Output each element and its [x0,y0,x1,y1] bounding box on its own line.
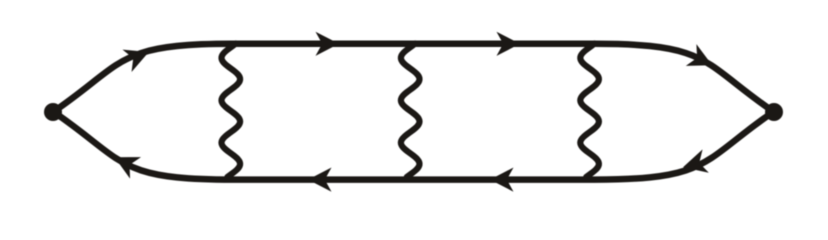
fermion line: top (left vertex to right vertex) [53,44,774,112]
photon propagator 1 (left) [222,44,241,178]
arrow on bottom line (right) [490,168,514,192]
right vertex dot [765,103,783,121]
arrow on bottom line (left) [308,168,332,192]
fermion line: bottom (right vertex back to left vertex) [53,111,774,179]
arrow on lower-left curve [109,146,141,178]
arrow on lower-right curve [680,149,709,178]
arrow on upper-left curve [122,41,153,72]
left vertex dot [44,103,62,121]
photon propagator 2 (middle) [401,44,420,178]
arrow on top line (left) [316,32,340,56]
arrow on upper-right curve [686,44,718,76]
photon propagator 3 (right) [580,44,599,178]
arrow on top line (right) [497,32,521,56]
